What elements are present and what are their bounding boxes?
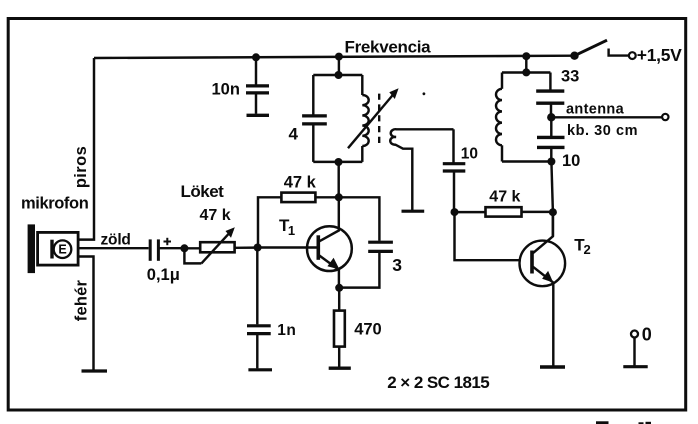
svg-text:1: 1 (288, 223, 295, 238)
svg-text:2 × 2 SC 1815: 2 × 2 SC 1815 (387, 373, 489, 392)
svg-text:mikrofon: mikrofon (21, 195, 89, 213)
svg-text:2: 2 (584, 242, 591, 257)
svg-text:fehér: fehér (73, 279, 91, 321)
svg-text:10: 10 (461, 146, 478, 163)
svg-text:antenna: antenna (566, 101, 625, 117)
svg-text:47 k: 47 k (200, 207, 231, 224)
svg-text:4: 4 (289, 125, 299, 144)
svg-text:E: E (58, 243, 66, 257)
svg-text:kb. 30 cm: kb. 30 cm (567, 123, 638, 139)
svg-text:Löket: Löket (181, 182, 225, 201)
svg-text:0: 0 (642, 324, 652, 344)
svg-text:zöld: zöld (101, 232, 131, 249)
svg-text:Frekvencia: Frekvencia (345, 37, 432, 56)
svg-text:1n: 1n (277, 322, 296, 339)
svg-text:10: 10 (562, 152, 580, 170)
svg-text:piros: piros (72, 146, 90, 188)
svg-text:10n: 10n (212, 81, 240, 99)
svg-text:470: 470 (354, 321, 382, 339)
svg-text:+1,5V: +1,5V (637, 45, 682, 65)
svg-text:0,1μ: 0,1μ (147, 266, 180, 284)
svg-text:47 k: 47 k (489, 189, 520, 206)
svg-text:47 k: 47 k (284, 174, 317, 192)
svg-text:33: 33 (561, 68, 579, 86)
svg-text:3: 3 (392, 255, 402, 275)
